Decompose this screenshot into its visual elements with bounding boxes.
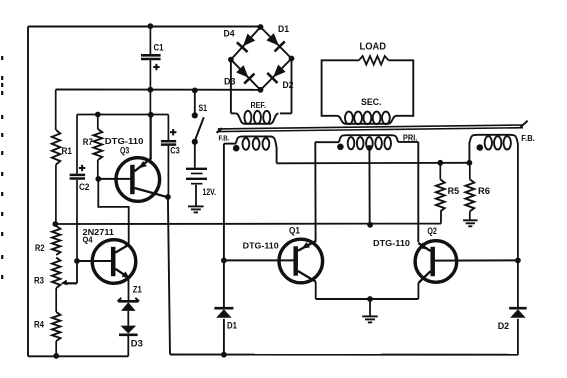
svg-text:LOAD: LOAD — [360, 42, 387, 53]
transistor Q2 — [373, 226, 518, 299]
svg-text:C2: C2 — [79, 182, 90, 192]
winding REF — [231, 59, 292, 124]
resistor R4 — [34, 288, 60, 356]
ground R6 — [463, 220, 478, 226]
wire Q3 base — [98, 178, 130, 180]
svg-text:D2: D2 — [498, 321, 510, 331]
wire gate bus — [277, 162, 470, 165]
wire top rail — [28, 26, 261, 28]
svg-text:D1: D1 — [227, 320, 237, 330]
svg-text:REF.: REF. — [251, 100, 267, 110]
svg-text:Q2: Q2 — [427, 226, 437, 236]
winding SEC — [337, 97, 397, 124]
svg-text:D3: D3 — [131, 338, 143, 348]
svg-text:R1: R1 — [62, 146, 73, 156]
svg-text:S1: S1 — [199, 103, 208, 113]
svg-text:R7: R7 — [83, 137, 93, 147]
svg-text:R4: R4 — [34, 320, 45, 330]
capacitor C1 — [141, 27, 164, 159]
wire left rail — [27, 27, 29, 357]
bridge diode D2 — [267, 65, 293, 91]
wire PRI left to Q1 emitter — [314, 142, 316, 242]
wire bottom-right rail — [170, 354, 518, 356]
wire bridge frame — [231, 27, 292, 90]
wire PRI centre tap — [368, 148, 370, 225]
wire bias bus — [55, 211, 441, 224]
svg-text:R2: R2 — [35, 243, 45, 253]
transformer core — [217, 121, 528, 133]
svg-text:D1: D1 — [278, 24, 289, 34]
winding F.B. left — [224, 136, 277, 163]
svg-text:R6: R6 — [478, 186, 490, 196]
wire collector rail — [316, 299, 419, 316]
wiper R3 arm — [61, 261, 77, 285]
wire Q3 collector drop — [168, 197, 170, 355]
resistor R1 — [52, 90, 72, 225]
svg-text:DTG-110: DTG-110 — [243, 240, 279, 250]
ground battery — [188, 206, 204, 212]
ground collector rail — [362, 316, 378, 322]
wire F.B.-left drop to Q1 base and D1 — [223, 144, 225, 355]
svg-text:D4: D4 — [224, 28, 236, 38]
resistor R5 — [436, 163, 459, 212]
svg-text:PRI.: PRI. — [403, 134, 418, 143]
capacitor C2 — [70, 115, 90, 262]
svg-text:Q3: Q3 — [120, 145, 129, 155]
winding PRI — [315, 134, 418, 151]
svg-text:Z1: Z1 — [133, 284, 142, 294]
label F.B. right — [521, 134, 535, 143]
wire Q3 base to Q4 collector — [98, 179, 128, 245]
bridge diode D1 — [266, 24, 289, 52]
battery 12V — [186, 144, 216, 206]
wire +12V rail — [56, 89, 261, 91]
diode D3 lower — [119, 326, 143, 357]
winding F.B. right — [469, 135, 517, 163]
diode D2 lower — [498, 308, 527, 331]
label F.B. left — [219, 134, 230, 143]
margin dashes — [1, 56, 3, 279]
svg-text:Q1: Q1 — [289, 225, 300, 235]
svg-text:R3: R3 — [34, 276, 44, 286]
transistor Q1 — [224, 225, 323, 299]
svg-text:F.B.: F.B. — [219, 134, 230, 143]
svg-text:D3: D3 — [224, 76, 236, 86]
resistor R7 — [83, 115, 102, 180]
wire PRI right to Q2 emitter — [417, 142, 419, 242]
svg-text:Q4: Q4 — [83, 234, 93, 244]
capacitor C3 — [161, 115, 180, 198]
svg-text:C1: C1 — [154, 43, 164, 53]
transistor Q4 — [77, 227, 136, 300]
zener Z1 — [118, 284, 142, 326]
diode D1 lower — [214, 308, 237, 330]
resistor LOAD — [322, 42, 414, 116]
wire right rail — [517, 143, 519, 355]
svg-text:DTG-110: DTG-110 — [373, 238, 410, 248]
wire Q3 emitter bus — [77, 114, 168, 116]
bridge diode D3 — [224, 65, 254, 86]
resistor R6 — [465, 163, 490, 220]
svg-text:C3: C3 — [170, 145, 180, 155]
resistor R2 — [35, 226, 60, 255]
svg-text:12V.: 12V. — [203, 187, 217, 197]
switch S1 — [192, 90, 207, 144]
svg-text:F.B.: F.B. — [521, 134, 535, 143]
transistor Q3 — [105, 115, 168, 201]
bridge diode D4 — [224, 28, 256, 52]
wire bottom-left rail — [28, 355, 128, 357]
svg-text:R5: R5 — [448, 186, 460, 196]
svg-text:SEC.: SEC. — [361, 97, 382, 107]
potentiometer R3 — [34, 258, 60, 289]
